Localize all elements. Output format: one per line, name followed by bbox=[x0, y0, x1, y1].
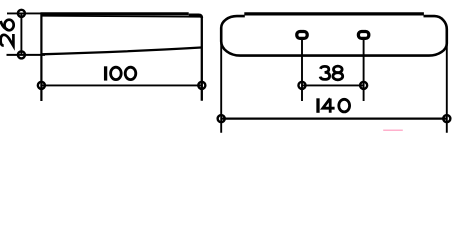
dimension 26: top end circle bbox=[18, 10, 25, 17]
side view glass underside line bbox=[42, 16, 201, 17]
side view left edge + 100 dim left extension bbox=[40, 13, 42, 101]
dimension 140: left end circle bbox=[218, 115, 225, 122]
dimension 38: right extension line from hole bbox=[363, 39, 365, 101]
dimension 26: bottom end circle bbox=[18, 51, 25, 58]
label 38 bbox=[320, 66, 343, 80]
dimension 140: horizontal dimension line bbox=[221, 117, 447, 119]
side view right edge + 100 dim right extension bbox=[201, 17, 203, 101]
label 140 bbox=[318, 98, 350, 113]
front view top rim edge (thick, stepped) bbox=[244, 12, 424, 15]
dimension 26: vertical dimension line bbox=[20, 13, 22, 55]
side view top edge (shelf rim, thick) bbox=[7, 13, 202, 18]
label 100 bbox=[106, 66, 136, 80]
front view right mounting hole (slot) bbox=[358, 32, 368, 39]
digit 2 bbox=[1, 34, 14, 46]
dimension 38: left extension line from hole bbox=[301, 39, 303, 101]
dimension 38: horizontal dimension line bbox=[302, 84, 364, 86]
dimension 38: left end circle bbox=[298, 82, 305, 89]
dimension 140: right extension line (below front view right edge) bbox=[446, 30, 448, 133]
side view bottom edge (sloped) bbox=[41, 48, 201, 55]
dimension 140: left extension line (below front view left edge) bbox=[220, 28, 222, 133]
dimension 100: right end circle bbox=[198, 82, 205, 89]
dimension 26: bottom tick bbox=[7, 54, 46, 56]
digit 8 bbox=[333, 66, 343, 80]
dimension 140: right end circle bbox=[443, 115, 450, 122]
digit 4 bbox=[323, 98, 335, 113]
dimension 100: horizontal dimension line bbox=[41, 84, 201, 86]
pink artifact line bbox=[383, 129, 403, 131]
digit 3 bbox=[320, 66, 330, 79]
digit 6 bbox=[1, 20, 14, 31]
front view rounded body outline bbox=[221, 16, 447, 56]
front view left mounting hole (slot) bbox=[297, 32, 307, 39]
dimension 38: right end circle bbox=[360, 82, 367, 89]
dimension 100: left end circle bbox=[38, 82, 45, 89]
label 26 (rotated) bbox=[1, 20, 14, 46]
